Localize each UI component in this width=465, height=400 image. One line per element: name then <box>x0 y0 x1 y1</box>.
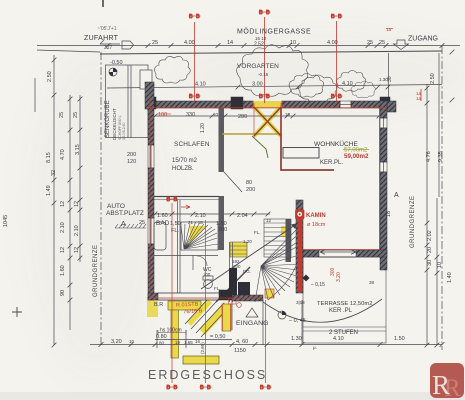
svg-text:1.65: 1.65 <box>184 340 193 345</box>
svg-text:1.20: 1.20 <box>200 123 206 133</box>
svg-text:1.50: 1.50 <box>394 336 405 342</box>
svg-text:HOLZB.: HOLZB. <box>172 166 194 172</box>
svg-text:1,50: 1,50 <box>170 221 181 227</box>
svg-text:2.04: 2.04 <box>237 213 248 219</box>
svg-text:~'05'J'+1: ~'05'J'+1 <box>97 26 117 32</box>
svg-text:200: 200 <box>233 264 241 269</box>
svg-text:/00: /00 <box>204 272 211 277</box>
svg-text:18: 18 <box>386 211 392 217</box>
svg-text:59,00m2: 59,00m2 <box>344 153 369 160</box>
svg-text:(2.60): (2.60) <box>200 342 205 354</box>
svg-text:4, 60: 4, 60 <box>236 339 248 345</box>
svg-text:25: 25 <box>152 40 158 46</box>
svg-text:330: 330 <box>186 112 195 118</box>
svg-text:A: A <box>394 192 399 199</box>
svg-text:76/16 B: 76/16 B <box>183 308 203 315</box>
svg-text:FL.: FL. <box>214 286 221 291</box>
svg-text:10: 10 <box>437 262 443 268</box>
svg-text:= 0,50: = 0,50 <box>210 334 225 340</box>
svg-text:0.80: 0.80 <box>156 334 167 340</box>
svg-text:4.76: 4.76 <box>426 151 432 162</box>
svg-text:1150: 1150 <box>234 348 246 354</box>
svg-text:1045: 1045 <box>3 215 9 227</box>
svg-text:21 x 18: 21 x 18 <box>188 220 203 225</box>
svg-text:2.10: 2.10 <box>195 213 206 219</box>
svg-text:GRUNDGRENZE: GRUNDGRENZE <box>410 195 416 248</box>
svg-text:SCHLAFEN: SCHLAFEN <box>174 141 210 148</box>
svg-text:2.02: 2.02 <box>427 230 433 241</box>
svg-text:DG.: DG. <box>243 269 251 274</box>
svg-text:20: 20 <box>427 247 433 253</box>
svg-text:R: R <box>432 370 450 400</box>
svg-text:4.10: 4.10 <box>333 336 344 342</box>
svg-text:hs 100cm: hs 100cm <box>160 328 182 334</box>
svg-text:38: 38 <box>369 280 375 285</box>
svg-text:1.40: 1.40 <box>447 272 453 283</box>
svg-text:ø 18cm: ø 18cm <box>307 222 326 228</box>
svg-text:KER .PL: KER .PL <box>329 308 353 314</box>
svg-text:– 0, 45: – 0, 45 <box>289 318 306 324</box>
svg-text:280: 280 <box>238 114 247 120</box>
svg-text:KER.PL.: KER.PL. <box>320 160 343 166</box>
svg-text:ERDGESCHOSS: ERDGESCHOSS <box>148 368 267 382</box>
svg-text:100: 100 <box>158 112 167 118</box>
svg-text:10: 10 <box>213 112 219 117</box>
svg-text:19: 19 <box>175 340 181 345</box>
svg-text:B.R: B.R <box>154 302 163 308</box>
svg-text:KAMIN: KAMIN <box>306 213 326 219</box>
svg-text:FL.: FL. <box>254 230 261 235</box>
svg-text:– 0,15: – 0,15 <box>311 282 325 288</box>
svg-text:EINGANG: EINGANG <box>236 320 269 327</box>
svg-text:15/70 m2: 15/70 m2 <box>172 158 198 164</box>
svg-text:9.35: 9.35 <box>438 151 444 162</box>
svg-text:μ.: μ. <box>313 345 317 350</box>
svg-text:30: 30 <box>427 260 433 266</box>
svg-text:12: 12 <box>266 218 272 223</box>
svg-text:1a: 1a <box>386 27 392 32</box>
svg-text:3|18: 3|18 <box>296 300 305 305</box>
svg-text:R.01STB: R.01STB <box>176 302 199 309</box>
svg-text:80: 80 <box>246 180 252 186</box>
svg-text:80: 80 <box>159 341 165 346</box>
svg-text:4.00: 4.00 <box>184 40 195 46</box>
svg-text:3.20: 3.20 <box>336 272 342 282</box>
svg-text:1.30: 1.30 <box>291 336 302 342</box>
svg-text:200: 200 <box>246 187 255 193</box>
svg-text:TERRASSE 12,50m2: TERRASSE 12,50m2 <box>317 301 372 307</box>
svg-text:200: 200 <box>218 227 227 233</box>
svg-text:FL.: FL. <box>171 228 179 234</box>
svg-text:1,20: 1,20 <box>243 239 252 244</box>
